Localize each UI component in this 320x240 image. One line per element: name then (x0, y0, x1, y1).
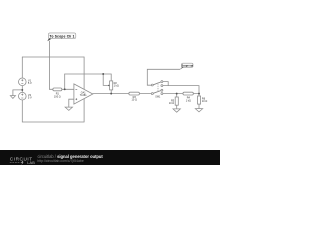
wire feedback to pot top (110, 74, 112, 81)
svg-text:100 Ω: 100 Ω (54, 95, 61, 98)
switch SW1 upper throw B (161, 85, 163, 87)
logo CircuitLab (10, 156, 35, 165)
wire flag1 drop to R1 (49, 41, 53, 89)
wire flag2 run to upper pole (147, 69, 180, 85)
wire non-inverting input to ground (69, 99, 74, 108)
wire top supply rail (22, 56, 84, 58)
svg-text:To Scope Ch 1: To Scope Ch 1 (50, 34, 75, 38)
resistor R1 (53, 88, 62, 91)
switch SW1 upper arm (153, 82, 161, 85)
wire upper throw B to tie bar (163, 85, 168, 87)
wire R6 bottom to ground (198, 104, 200, 110)
junction R5 node (176, 93, 178, 95)
resistor R6 (198, 96, 201, 104)
svg-text:Scope out: Scope out (182, 64, 194, 67)
switch SW1 lower throw A (161, 89, 163, 91)
wire lower throw B to R5 node (163, 93, 183, 95)
wire R4 to R6 node (193, 93, 199, 95)
resistor R3 (129, 92, 140, 95)
svg-text:5 V: 5 V (28, 96, 32, 100)
voltage source V2 (19, 92, 27, 100)
resistor R4 (183, 92, 193, 95)
svg-text:10 Ω: 10 Ω (202, 100, 207, 103)
op-amp OA1 (74, 84, 93, 104)
svg-text:1 kΩ: 1 kΩ (114, 85, 119, 88)
ground left (10, 96, 15, 99)
svg-text:1 kΩ: 1 kΩ (186, 99, 191, 102)
wire pot bottom to output rail (110, 90, 112, 94)
ground R5 (173, 109, 180, 112)
wire op-amp output rail (93, 93, 129, 95)
junction pot bottom (110, 93, 112, 95)
wire mid supply to ground (13, 90, 22, 97)
wire feedback riser (64, 74, 66, 89)
svg-text:SW1: SW1 (155, 97, 161, 99)
wire left rail to V1 top (21, 57, 23, 78)
wire R3 to switch pole (139, 93, 151, 95)
voltage source V1 (19, 78, 27, 86)
switch SW1 lower arm (153, 91, 161, 94)
switch SW1 lower pole (151, 93, 153, 95)
wire R6 top lead (198, 94, 200, 96)
wire R1 right to inverting node (62, 88, 74, 90)
wire upper throw A to tie bar (163, 82, 168, 86)
svg-text:10 Ω: 10 Ω (132, 99, 137, 102)
ground op-amp non-inverting (65, 107, 72, 110)
wire R5 node riser (176, 94, 178, 97)
wire tie bar to attenuator node (168, 86, 199, 94)
svg-text:http://circuitlab.com/c/7jt54a: http://circuitlab.com/c/7jt54abe (37, 159, 84, 163)
wire V+ drop to op-amp (83, 57, 85, 89)
switch SW1 link (157, 83, 159, 92)
switch SW1 upper throw A (161, 81, 163, 83)
junction feedback T (102, 73, 104, 75)
svg-text:TL081: TL081 (80, 94, 87, 97)
node flag Scope out (180, 63, 193, 69)
wire wiper branch (103, 74, 109, 85)
wire V1 to V2 (21, 86, 23, 93)
resistor R5 (175, 97, 178, 105)
node flag To Scope (47, 33, 76, 41)
wire V2 bottom to bottom rail (22, 99, 84, 122)
switch SW1 lower throw B (161, 93, 163, 95)
ground R6 (195, 109, 202, 112)
switch SW1 upper pole (151, 84, 153, 86)
junction R6 node (198, 93, 200, 95)
svg-text:5 V: 5 V (28, 81, 32, 85)
svg-text:10 Ω: 10 Ω (169, 102, 174, 105)
wire feedback top run (65, 73, 112, 75)
potentiometer R2 (110, 81, 113, 90)
svg-text:LAB: LAB (27, 161, 35, 165)
footer bar (0, 150, 220, 165)
junction between V1 and V2 (21, 89, 23, 91)
wire R5 bottom to ground (176, 105, 178, 110)
junction inverting node (64, 88, 66, 90)
